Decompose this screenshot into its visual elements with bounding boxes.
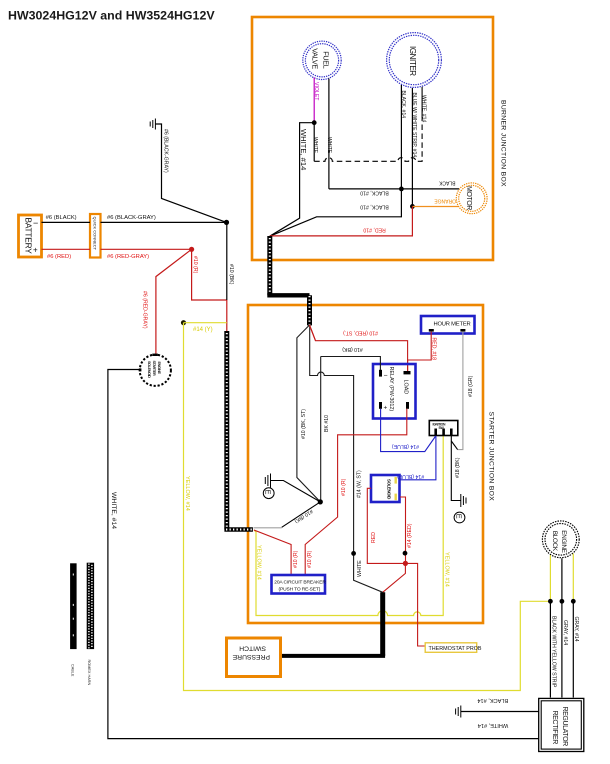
ground G1 top-left: [150, 119, 155, 130]
igniter IG: [387, 33, 442, 88]
svg-text:ROMEX HARN: ROMEX HARN: [87, 660, 91, 686]
svg-text:20A CIRCUIT BREAKER: 20A CIRCUIT BREAKER: [274, 579, 326, 585]
wire BLACK, #10 fuel valve branch: [329, 189, 402, 195]
node B red junction dot: [189, 247, 194, 252]
wire #10 (R) node B down: [192, 249, 227, 300]
wire YELLOW #14 cable C2 to key switch: [254, 436, 449, 616]
wire YELLOW #14 long left run: [184, 323, 551, 691]
wire #18 (GR) hour meter to key switch: [458, 332, 474, 450]
svg-text:#14 (BLUE): #14 (BLUE): [397, 473, 424, 479]
node I red junction dot: [403, 561, 408, 566]
relay K2 PW-3012: [373, 364, 416, 419]
node K dot: [548, 599, 553, 604]
wire BLACK WITH YELLOW STRIP to regulator: [550, 601, 556, 697]
svg-text:#14 (BLUE): #14 (BLUE): [392, 443, 419, 449]
svg-text:REGULATOR: REGULATOR: [561, 707, 568, 747]
svg-text:PRESSURE: PRESSURE: [232, 653, 270, 660]
svg-text:(PUSH TO RE-SET): (PUSH TO RE-SET): [279, 587, 321, 593]
wire #10 (R) breaker right to relay: [305, 409, 407, 575]
svg-text:YELLOW, #14: YELLOW, #14: [184, 476, 190, 511]
ground G2 E circle: [263, 488, 274, 499]
svg-text:HW3024HG12V and HW3524HG12V: HW3024HG12V and HW3524HG12V: [8, 9, 215, 23]
svg-text:#6 (RED): #6 (RED): [47, 254, 71, 260]
svg-text:CABLE: CABLE: [70, 664, 74, 677]
svg-text:−: −: [33, 218, 38, 228]
svg-text:YELLOW, #14: YELLOW, #14: [443, 552, 449, 587]
svg-text:#10 (BK, ST): #10 (BK, ST): [301, 409, 307, 439]
svg-text:RED, #18: RED, #18: [431, 338, 437, 361]
svg-text:BLACK, #14: BLACK, #14: [400, 91, 406, 119]
svg-text:#14 (Y): #14 (Y): [193, 327, 213, 333]
wire ORANGE motor lead: [412, 197, 458, 206]
svg-text:#6 (RED-GRAY): #6 (RED-GRAY): [107, 254, 149, 260]
svg-text:BLACK WITH YELLOW STRIP: BLACK WITH YELLOW STRIP: [551, 616, 557, 688]
wire yellow engine block lead 3: [572, 554, 574, 602]
svg-text:+: +: [33, 246, 38, 255]
wire #14 (W, ST) cable C1 white branch: [310, 325, 363, 553]
svg-text:SOLENOID: SOLENOID: [387, 479, 392, 499]
ground G2 starter box left: [265, 474, 320, 502]
svg-text:BK #10: BK #10: [324, 415, 330, 432]
svg-text:FUEL: FUEL: [322, 51, 331, 68]
svg-text:#6 (BLACK-GRAY): #6 (BLACK-GRAY): [163, 129, 169, 173]
wire #10 (BK, ST) cable C1 to ground node: [297, 325, 320, 502]
wire #6 (BLACK-GRAY) quick connect to node: [101, 215, 227, 222]
wire #14 (BLUE) relay plus to key switch: [381, 409, 436, 452]
wire VIOLET fuel valve lead: [313, 78, 319, 123]
wire #14 (RED) solenoid right to red node: [400, 497, 413, 563]
wire RED, #18 hour meter to relay: [408, 332, 437, 371]
svg-text:LOAD: LOAD: [403, 380, 409, 395]
svg-text:WHITE: WHITE: [326, 137, 332, 154]
svg-text:ENGINE: ENGINE: [560, 530, 567, 552]
quick connect: [90, 214, 101, 258]
svg-text:#10 (R): #10 (R): [307, 550, 313, 568]
node E black junction dot: [399, 187, 404, 192]
wire #10 (RED, ST.) cable C1 to relay: [310, 325, 408, 371]
battery: [19, 215, 42, 257]
svg-text:BLUE W/ WHITE STRIP, #14: BLUE W/ WHITE STRIP, #14: [411, 93, 417, 158]
circuit breaker CB1 20A: [272, 575, 327, 594]
svg-text:#10 (R): #10 (R): [192, 256, 198, 274]
node G black junction dot: [318, 499, 323, 504]
svg-text:MOTOR: MOTOR: [465, 186, 472, 210]
node C yellow junction dot: [181, 320, 186, 325]
wire GRAY #14 second to regulator: [573, 601, 579, 697]
wire BLACK #14 ground to regulator: [461, 697, 539, 712]
wire red node I to thermostat prob: [405, 563, 425, 646]
svg-text:#6 (RED-GRAY): #6 (RED-GRAY): [142, 291, 148, 329]
svg-text:RELAY (PW-3012): RELAY (PW-3012): [388, 367, 394, 412]
svg-text:#14 (RED): #14 (RED): [407, 523, 413, 548]
motor M: [456, 183, 487, 214]
legend hatched swatch: [87, 563, 94, 686]
svg-text:#10 (R): #10 (R): [341, 478, 347, 496]
svg-text:E: E: [264, 490, 273, 495]
wire red segment into cable C2: [226, 300, 228, 334]
wire #6 (RED-GRAY) quick connect to node: [101, 249, 192, 260]
svg-text:BLOCK: BLOCK: [551, 531, 558, 552]
wire WHITE white branch to cable C3: [354, 553, 383, 592]
svg-text:IGNITER: IGNITER: [408, 46, 417, 76]
svg-text:SOLENOID: SOLENOID: [147, 361, 151, 378]
svg-text:RED, #10: RED, #10: [363, 227, 386, 233]
node M dot: [571, 599, 576, 604]
svg-text:WHITE, #14: WHITE, #14: [299, 129, 308, 170]
svg-text:QUICK CONNECT: QUICK CONNECT: [93, 217, 98, 251]
thermostat prob TP: [425, 643, 482, 653]
wire WHITE fuel valve second lead: [326, 79, 332, 189]
svg-text:HOUR METER: HOUR METER: [434, 321, 471, 327]
svg-text:+: +: [384, 405, 388, 412]
svg-text:GRAY, #14: GRAY, #14: [573, 617, 579, 642]
svg-text:#10 (RED, ST.): #10 (RED, ST.): [343, 330, 378, 336]
cable C3 thick to pressure switch: [281, 592, 385, 656]
starter solenoid K1: [139, 354, 171, 386]
node A junction dot: [224, 220, 229, 225]
svg-text:#10 (R): #10 (R): [293, 550, 299, 568]
wire BLACK, #10 to cable C1: [270, 189, 402, 236]
svg-text:#18 (GR): #18 (GR): [468, 375, 474, 397]
svg-text:BLACK: BLACK: [438, 180, 455, 186]
ground G3 E circle: [454, 512, 465, 523]
node D violet-white junction dot: [312, 120, 317, 125]
svg-text:#6 (BLACK): #6 (BLACK): [46, 215, 77, 221]
svg-text:SWITCH: SWITCH: [239, 645, 266, 652]
engine block EB: [542, 521, 579, 558]
wire yellow engine block lead 1: [549, 555, 551, 601]
wire WHITE #14 solenoid to regulator bottom run: [108, 370, 539, 739]
wire RED solenoid left to red node: [367, 488, 405, 563]
key switch S1: [429, 421, 458, 436]
svg-text:RECTIFIER: RECTIFIER: [551, 711, 558, 745]
svg-text:ORANGE: ORANGE: [434, 197, 456, 203]
node J black junction dot: [351, 551, 356, 556]
svg-text:YELLOW, #14: YELLOW, #14: [256, 545, 262, 580]
svg-text:#6 (BLACK-GRAY): #6 (BLACK-GRAY): [107, 215, 156, 221]
wire BLUE W/ WHITE STRIP #14 igniter lead: [411, 88, 417, 206]
wire black engine block lead 2: [561, 558, 563, 601]
svg-text:#14 (W, ST): #14 (W, ST): [357, 470, 363, 498]
svg-text:ENGINE: ENGINE: [157, 362, 161, 375]
svg-text:−: −: [384, 373, 388, 380]
svg-text:THERMOSTAT PROB: THERMOSTAT PROB: [429, 646, 482, 652]
wire #14 (BLUE) key switch to solenoid box: [397, 436, 436, 480]
ground G3: [461, 494, 466, 507]
svg-text:BLACK, #14: BLACK, #14: [477, 697, 508, 703]
wire #10 (R) cable C2 to breaker left: [254, 530, 299, 575]
fuel valve FV: [303, 41, 341, 79]
wire #10 (BK) node to relay minus: [321, 346, 381, 370]
cable C2 hatched battery junction to starter box: [224, 331, 253, 530]
regulator rectifier RR: [539, 698, 584, 751]
solenoid module SOL: [371, 475, 400, 502]
svg-text:VALVE: VALVE: [311, 48, 320, 69]
svg-text:GRAY, #14: GRAY, #14: [562, 620, 568, 645]
wire GRAY #14 to regulator: [562, 601, 568, 697]
svg-text:BLACK, #10: BLACK, #10: [360, 203, 389, 209]
wire red node I to cable C3: [383, 563, 406, 592]
wire WHITE, #14 from junction to cable C1: [270, 123, 314, 237]
starter junction box: [248, 305, 483, 623]
svg-text:#10 (BK): #10 (BK): [342, 346, 363, 352]
svg-text:#18 (BK): #18 (BK): [455, 457, 461, 478]
burner junction box: [252, 17, 493, 260]
wire RED, #10 to cable C1: [270, 206, 413, 236]
svg-text:WHITE: WHITE: [357, 560, 363, 577]
wire #10 (BK) node G to cable C2: [254, 502, 321, 528]
wire WHITE dashed run to igniter: [312, 87, 427, 162]
svg-text:WHITE, #14: WHITE, #14: [110, 492, 117, 529]
node L dot: [560, 599, 565, 604]
wire #6 (RED-GRAY) node B to starter solenoid: [142, 249, 192, 354]
wire #6 (RED) battery to quick connect: [42, 249, 91, 260]
wire BLACK #14 igniter lead: [400, 85, 406, 189]
wire #18 (BK) key switch to ground G3: [451, 436, 461, 501]
svg-text:STARTER: STARTER: [152, 361, 156, 377]
svg-text:#10 (BK): #10 (BK): [228, 264, 234, 285]
svg-text:VIOLET: VIOLET: [313, 82, 319, 101]
svg-text:STARTER JUNCTION BOX: STARTER JUNCTION BOX: [488, 412, 495, 502]
cable C1 hatched burner to starter: [267, 236, 309, 325]
wire BK #10 relay branch down: [321, 357, 330, 502]
pressure switch PS: [227, 638, 281, 677]
svg-text:RED: RED: [371, 532, 377, 543]
wire BLACK motor lead: [401, 180, 459, 189]
svg-text:WHITE, #14: WHITE, #14: [478, 722, 508, 728]
svg-text:BLACK, #10: BLACK, #10: [360, 189, 389, 195]
node H black dot on red wire: [403, 551, 408, 556]
wire #10 (BK) node A down: [227, 222, 234, 300]
hour meter HM: [421, 316, 475, 334]
wire #6 (BLACK-GRAY) ground to node A: [155, 124, 226, 222]
legend solid cable swatch: [70, 563, 77, 677]
svg-text:WHITE, #14: WHITE, #14: [421, 95, 427, 122]
svg-text:WHITE: WHITE: [312, 137, 318, 154]
svg-text:BATTERY: BATTERY: [24, 218, 34, 255]
node F junction dot orange-red-bluewhite: [410, 204, 415, 209]
ground G4: [456, 706, 461, 718]
svg-text:BURNER JUNCTION BOX: BURNER JUNCTION BOX: [500, 100, 507, 187]
wire #14 (Y) node C to cable C2: [184, 323, 227, 333]
svg-text:E: E: [454, 514, 463, 519]
wire #6 (BLACK) battery to quick connect: [42, 215, 91, 222]
